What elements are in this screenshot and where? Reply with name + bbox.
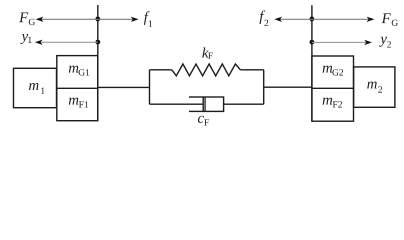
- label m_G1: [69, 66, 89, 76]
- arrowhead y_1: [35, 40, 43, 45]
- wire: damper left rod: [150, 103, 204, 105]
- node on right guide at force line: [310, 17, 315, 22]
- divider mG1/mF1: [57, 87, 98, 89]
- wire: y_1 arrow shaft: [41, 41, 98, 43]
- wire: left guide vertical line: [97, 5, 99, 121]
- wire: f_2 arrow shaft: [280, 18, 312, 20]
- wire: f_1 arrow shaft: [98, 18, 133, 20]
- label k_F: [202, 47, 212, 58]
- label c_F: [198, 116, 209, 126]
- label m_2: [367, 82, 382, 93]
- label f_1: [144, 11, 152, 26]
- label F_G right: [382, 13, 398, 26]
- mass m1 box: [14, 68, 57, 107]
- arrowhead y_2: [364, 40, 372, 45]
- arrowhead f_1: [131, 17, 139, 22]
- wire: damper right rod: [224, 103, 264, 105]
- arrowhead F_G right: [367, 17, 375, 22]
- spring kF zigzag: [172, 64, 241, 76]
- arrowhead F_G left: [36, 17, 44, 22]
- wire: right guide vertical line: [311, 5, 313, 121]
- mass m2 box: [354, 67, 395, 107]
- node on left guide at displacement line: [95, 40, 100, 45]
- damper piston plate: [204, 97, 206, 111]
- wire: spring left arm: [150, 69, 172, 71]
- label m_1: [29, 83, 45, 94]
- wire: F_G left arrow shaft: [42, 18, 98, 20]
- wire: rod bracket to right stack: [264, 86, 312, 88]
- label m_F2: [323, 98, 342, 108]
- wire: spring right arm: [240, 69, 263, 71]
- divider mG2/mF2: [312, 87, 354, 89]
- wire: y_2 arrow shaft: [312, 41, 366, 43]
- label y_2: [379, 37, 391, 48]
- damper fork bottom line: [189, 110, 203, 112]
- wire: rod left stack to bracket: [98, 86, 150, 88]
- mass stack mG2/mF2 box: [312, 56, 354, 121]
- label y_1: [20, 34, 31, 44]
- right bracket: [263, 70, 265, 104]
- left bracket: [149, 70, 151, 104]
- damper fork top line: [189, 96, 203, 98]
- wire: F_G right arrow shaft: [312, 18, 369, 20]
- damper cF cylinder box: [203, 97, 223, 111]
- label m_F1: [69, 98, 88, 108]
- label m_G2: [323, 66, 343, 76]
- node on right guide at displacement line: [310, 40, 315, 45]
- node on left guide at force line: [95, 17, 100, 22]
- label F_G left: [19, 13, 35, 26]
- mass stack mG1/mF1 box: [57, 56, 98, 121]
- arrowhead f_2: [274, 17, 282, 22]
- label f_2: [259, 10, 268, 26]
